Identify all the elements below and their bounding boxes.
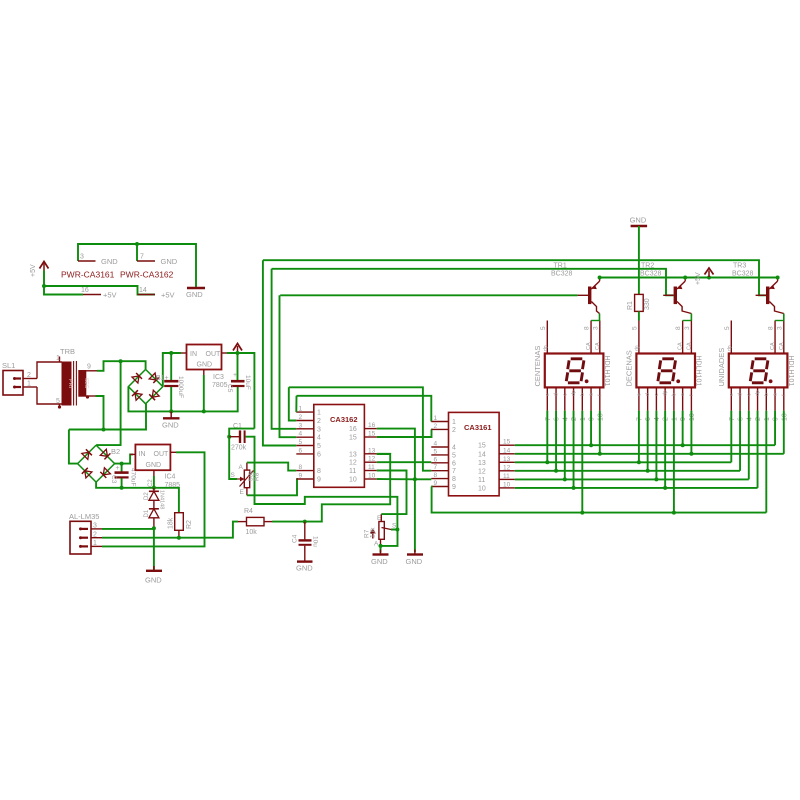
junction display DECENAS pin 5 on bus	[672, 511, 676, 515]
svg-text:1000uF: 1000uF	[177, 376, 184, 398]
svg-text:7: 7	[434, 464, 438, 471]
wire IC3 OUT to +5V rail corner	[227, 353, 254, 429]
capacitor C3 470uF plates	[115, 473, 129, 478]
pin stub GND IC3	[203, 370, 205, 376]
pin 7 stub CA3161	[431, 470, 448, 472]
pin 10 stub CA3162	[364, 478, 376, 480]
svg-text:2: 2	[434, 423, 438, 430]
svg-text:GND: GND	[186, 290, 203, 299]
wire segment bus line d from CA3161 pin 12	[515, 470, 740, 472]
svg-text:OUT: OUT	[154, 451, 170, 458]
svg-text:a: a	[773, 393, 779, 396]
svg-text:10: 10	[503, 481, 511, 488]
svg-text:a: a	[589, 393, 595, 396]
svg-text:7885: 7885	[165, 482, 181, 489]
junction minus rail at C3	[120, 486, 124, 490]
svg-text:7: 7	[545, 417, 552, 421]
wire IC4 OUT to LM35 pin1	[102, 452, 205, 546]
svg-text:CA3161: CA3161	[464, 423, 492, 432]
svg-text:CA: CA	[595, 342, 601, 350]
wire IC4 GND to minus rail	[153, 476, 155, 489]
resistor R2 body	[175, 513, 184, 531]
junction emitter rail TR3	[776, 276, 780, 280]
pin 9 stub CA3161	[431, 486, 448, 488]
trimmer R8 body	[244, 470, 249, 488]
display CENTENAS bottom pin stub 9	[590, 387, 592, 410]
junction D1 LM35 pin3	[152, 526, 156, 530]
svg-text:15: 15	[503, 439, 511, 446]
svg-text:2: 2	[755, 417, 762, 421]
pin 12 stub CA3162	[364, 461, 376, 463]
svg-text:3: 3	[80, 254, 84, 261]
svg-text:4: 4	[562, 417, 569, 421]
capacitor B1 1000uF plates	[164, 381, 178, 386]
resistor R4 body	[247, 517, 265, 525]
svg-text:9: 9	[680, 417, 687, 421]
wire display CENTENAS pin drop to bus line 6	[573, 411, 575, 488]
svg-text:12: 12	[503, 464, 511, 471]
pin 3 stub AL-LM35	[91, 528, 102, 530]
svg-text:14: 14	[503, 447, 511, 454]
svg-text:2: 2	[663, 417, 670, 421]
wire AC1 down to bridge B2 top	[96, 361, 121, 445]
wire B1- left corner down to gnd rail	[128, 386, 237, 411]
pin 2 stub CA3162	[296, 420, 314, 422]
svg-text:10k: 10k	[370, 527, 377, 538]
wire segment bus line b from CA3161 pin 14	[515, 453, 784, 455]
capacitor C1 plates	[240, 430, 245, 443]
pin stub IN IC4	[130, 453, 135, 455]
wire display DECENAS pin drop to bus line 1	[682, 411, 684, 446]
junction AC1 at x120	[119, 359, 123, 363]
power symbol +5V arrow (PWR block)	[40, 262, 49, 271]
junction display CENTENAS pin 2 on bus	[554, 469, 558, 473]
pin 9 stub CA3162	[296, 478, 314, 480]
svg-text:a: a	[680, 393, 686, 396]
wire R8 E to CA3162 pin9	[247, 479, 297, 495]
wire display UNIDADES pin drop to bus line 3	[730, 411, 732, 463]
svg-text:9: 9	[773, 417, 780, 421]
wire R7 E to CA3162 pin11	[377, 471, 407, 515]
wire CA3162 pin1 riser to bus W2	[295, 396, 297, 412]
svg-text:S: S	[392, 523, 397, 530]
display UNIDADES bottom pin stub 1	[765, 387, 767, 410]
wire LM35 pin2 to R4	[102, 522, 238, 538]
pin 1 stub AL-LM35	[91, 545, 102, 547]
svg-text:d: d	[554, 393, 560, 396]
wire R8 A to CA3162 pin8	[247, 463, 296, 471]
svg-text:+: +	[233, 372, 237, 379]
pin stub OUT IC4	[170, 451, 176, 453]
pin 11 stub CA3161	[499, 478, 515, 480]
wire CA3162 pin4 to top bus3	[280, 295, 297, 437]
wire display UNIDADES pin drop to bus line 7	[765, 411, 767, 513]
svg-text:b: b	[764, 393, 770, 396]
display UNIDADES bottom pin stub 7	[730, 387, 732, 410]
wire display CENTENAS pin drop to bus line 7	[581, 411, 583, 513]
junction gnd rail at cap B1	[169, 409, 173, 413]
svg-text:HDLH101: HDLH101	[787, 356, 794, 387]
wire CA3162 pin12 to CA3161 pin6	[377, 461, 432, 463]
wire digit bus1 CA3162 pin5 to TR3 base	[263, 260, 766, 295]
junction GND PWR block top	[135, 242, 139, 246]
svg-text:12: 12	[368, 456, 376, 463]
svg-text:1: 1	[671, 417, 678, 421]
svg-text:6: 6	[434, 456, 438, 463]
capacitor C4 plates	[299, 540, 312, 544]
connector SL1 pin 2 stub	[23, 378, 37, 380]
trimmer R7 wiper diagonal	[382, 528, 392, 530]
wire C1 right plate to pot loop	[246, 437, 398, 530]
svg-text:D1: D1	[144, 509, 150, 517]
junction emitter rail +5V arrow	[707, 276, 711, 280]
svg-text:TR1: TR1	[554, 263, 567, 270]
display CENTENAS bottom pin stub 7	[546, 387, 548, 410]
svg-text:GND: GND	[406, 557, 423, 566]
svg-text:4: 4	[434, 441, 438, 448]
svg-text:GND: GND	[197, 362, 213, 369]
svg-text:R4: R4	[244, 508, 253, 515]
svg-text:R2: R2	[186, 520, 193, 529]
svg-text:13: 13	[349, 451, 357, 458]
wire display DECENAS pin drop to bus line 4	[647, 411, 649, 471]
transformer TRB pin 1 stub	[59, 357, 61, 363]
wire GND top to R1	[638, 226, 640, 294]
transformer TRB pin 5 stub	[59, 404, 61, 407]
svg-text:1: 1	[317, 410, 321, 417]
svg-text:5: 5	[434, 448, 438, 455]
svg-text:dp: dp	[755, 390, 761, 396]
svg-text:GND: GND	[145, 576, 162, 585]
wire display UNIDADES pin drop to bus line 6	[757, 411, 759, 488]
IC CA3162 body	[314, 405, 365, 488]
svg-text:1: 1	[764, 417, 771, 421]
display DECENAS bottom pin stub 9	[682, 387, 684, 410]
wire W1 CA3162 pin2 to CA3161 pin7	[289, 387, 432, 470]
display DECENAS bottom pin stub 7	[638, 387, 640, 410]
svg-text:5: 5	[540, 326, 547, 330]
wire GND net PWR pin7 riser	[136, 244, 138, 261]
trimmer R7 adjust arrow	[372, 531, 374, 539]
transistor TR2 BC328	[663, 277, 691, 313]
svg-text:GND: GND	[296, 564, 313, 573]
svg-text:11: 11	[349, 468, 356, 475]
wire cap B1 top lead	[170, 353, 172, 380]
svg-text:9: 9	[317, 477, 321, 484]
svg-text:10uF: 10uF	[244, 375, 251, 390]
junction display DECENAS pin 3 on bus	[654, 477, 658, 481]
svg-text:SEC: SEC	[83, 378, 89, 389]
wire CA3162 pin10 gnd link	[377, 478, 432, 480]
svg-text:GND: GND	[371, 557, 388, 566]
wire segment bus line c from CA3161 pin 13	[515, 461, 732, 463]
display DECENAS bottom pin stub 2	[664, 387, 666, 410]
svg-text:CA: CA	[586, 342, 592, 350]
svg-text:IN: IN	[190, 351, 197, 358]
pin 16 stub PWR-CA3161	[83, 294, 101, 296]
display CENTENAS seven segment digit 8	[566, 359, 584, 383]
resistor R1 body	[635, 294, 644, 311]
wire AC1 secondary top to bridge B1 top	[97, 361, 146, 371]
junction display CENTENAS pin 1 on bus	[545, 460, 549, 464]
svg-text:16: 16	[81, 287, 89, 294]
svg-text:UNIDADES: UNIDADES	[717, 348, 726, 387]
svg-text:DECENAS: DECENAS	[624, 350, 633, 386]
svg-text:9: 9	[87, 364, 91, 371]
wire AC2 secondary bottom down	[96, 396, 104, 430]
svg-text:7805: 7805	[212, 382, 228, 389]
display UNIDADES bottom pin stub 9	[774, 387, 776, 410]
junction display CENTENAS pin 7 on bus	[598, 452, 602, 456]
svg-text:1: 1	[580, 417, 587, 421]
pin 6 stub CA3162	[296, 453, 314, 455]
display CENTENAS body	[545, 354, 604, 388]
wire between D2 and D1	[153, 500, 155, 509]
wire C1 left plate lead	[229, 436, 239, 438]
wire GND net PWR block top	[78, 244, 196, 288]
wire C4 bottom lead	[304, 546, 306, 562]
junction C1 left node	[227, 435, 231, 439]
wire B2 bottom corner to minus rail	[96, 482, 179, 505]
svg-text:10: 10	[781, 413, 788, 421]
wire segment bus line f from CA3161 pin 10	[515, 487, 758, 489]
pin 13 stub CA3161	[499, 461, 515, 463]
svg-text:6: 6	[299, 447, 303, 454]
svg-text:4: 4	[317, 435, 321, 442]
regulator IC3 body	[187, 345, 222, 370]
junction display DECENAS pin 2 on bus	[646, 469, 650, 473]
wire display UNIDADES pin drop to bus line 5	[748, 411, 750, 480]
pin 5 stub CA3162	[296, 445, 314, 447]
ground symbol GND right of R7	[407, 550, 423, 555]
display CENTENAS CA pin stubs top	[591, 321, 600, 354]
svg-text:+5V: +5V	[695, 272, 702, 285]
wire R8 wiper S net down	[229, 437, 237, 479]
svg-text:1: 1	[93, 540, 97, 547]
svg-text:3: 3	[93, 523, 97, 530]
display DECENAS bottom pin stub 6	[647, 387, 649, 410]
junction display DECENAS pin 6 on bus	[681, 443, 685, 447]
svg-text:2: 2	[452, 427, 456, 434]
wire +5V to C1 branch	[229, 429, 254, 437]
wire CA3162 pin2 to bus W1	[289, 387, 297, 420]
svg-text:13: 13	[368, 447, 376, 454]
svg-text:A: A	[374, 541, 379, 548]
svg-text:5: 5	[452, 452, 456, 459]
svg-text:CA3162: CA3162	[330, 415, 358, 424]
wire minus rail to R2 top	[178, 505, 180, 513]
pin stub R7 E top	[380, 514, 382, 521]
wire segment bus line e from CA3161 pin 11	[515, 478, 749, 480]
ground symbol GND below C4	[297, 560, 313, 562]
wire C4 top lead	[304, 522, 306, 540]
svg-text:1: 1	[299, 406, 303, 413]
wire display CENTENAS pin drop to bus line 1	[590, 411, 592, 446]
svg-text:TRB: TRB	[60, 347, 75, 356]
svg-text:11: 11	[478, 477, 485, 484]
wire B2 right corner to IC4 IN	[115, 454, 133, 463]
svg-text:5: 5	[631, 326, 638, 330]
svg-text:8: 8	[768, 326, 775, 330]
diode D1	[149, 508, 159, 510]
svg-text:CA: CA	[770, 342, 776, 350]
pin 7 stub PWR-CA3162	[137, 260, 155, 262]
svg-text:6: 6	[317, 451, 321, 458]
pin 6 stub CA3161	[431, 462, 448, 464]
wire R1 bottom to DECENAS dp pin	[638, 311, 640, 320]
wire display DECENAS CA pins link	[683, 320, 692, 322]
wire R7 S loop	[381, 530, 398, 546]
svg-text:2: 2	[93, 531, 97, 538]
svg-text:8: 8	[299, 464, 303, 471]
wire display CENTENAS pin drop to bus line 2	[599, 411, 601, 454]
svg-text:12: 12	[349, 460, 357, 467]
svg-text:4: 4	[746, 417, 753, 421]
IC CA3161 body	[449, 412, 500, 495]
transistor TR3 BC328	[756, 277, 784, 313]
svg-text:GND: GND	[161, 257, 178, 266]
svg-text:1N4148: 1N4148	[159, 490, 165, 509]
svg-text:14: 14	[478, 451, 486, 458]
transistor TR1 BC328	[578, 277, 600, 313]
junction AC2	[102, 428, 106, 432]
svg-text:R8: R8	[254, 472, 261, 481]
svg-text:6: 6	[554, 417, 561, 421]
svg-text:BC328: BC328	[640, 271, 662, 278]
connector SL1 body	[3, 371, 23, 396]
svg-text:OUT: OUT	[206, 351, 222, 358]
svg-text:6: 6	[645, 417, 652, 421]
pin stub R2 bottom	[178, 530, 180, 537]
pin 3 stub CA3162	[296, 428, 314, 430]
svg-text:b: b	[580, 393, 586, 396]
display UNIDADES CA pin stubs top	[775, 321, 784, 354]
svg-text:270k: 270k	[231, 445, 247, 452]
svg-text:8: 8	[584, 326, 591, 330]
regulator IC4 body	[135, 445, 170, 471]
transformer TRB pin 9 stub	[86, 370, 97, 372]
wire display UNIDADES CA pins link	[775, 320, 784, 322]
svg-text:PRI: PRI	[67, 379, 73, 389]
junction display DECENAS pin 1 on bus	[637, 460, 641, 464]
display DECENAS decimal point	[676, 379, 680, 383]
wire cap B1 bottom lead to gnd rail	[170, 387, 172, 412]
wire R4 to CA3162 pin13	[272, 454, 390, 522]
svg-text:GND: GND	[162, 421, 179, 430]
pin stub R4 right	[264, 521, 272, 523]
ground symbol GND below R7	[373, 550, 389, 555]
wire emitter +5V rail	[600, 277, 776, 279]
ground symbol GND below diodes	[146, 566, 162, 571]
svg-text:SL1: SL1	[2, 361, 15, 370]
svg-text:2: 2	[27, 372, 31, 379]
svg-text:C4: C4	[292, 534, 299, 543]
pin 16 stub CA3162	[364, 428, 376, 430]
svg-text:3: 3	[592, 326, 599, 330]
wire display CENTENAS CA pins link	[591, 320, 600, 322]
junction B1+ cap top	[169, 351, 173, 355]
svg-text:9: 9	[299, 473, 303, 480]
svg-text:S: S	[231, 472, 236, 479]
pin 5 stub CA3161	[431, 454, 448, 456]
svg-text:10: 10	[478, 485, 486, 492]
pin 8 stub CA3161	[431, 478, 448, 480]
junction minus rail at IC4 GND	[152, 486, 156, 490]
display DECENAS seven segment digit 8	[658, 359, 676, 383]
svg-text:CA: CA	[686, 342, 692, 350]
connector AL-LM35 body	[70, 521, 91, 554]
svg-text:TR2: TR2	[641, 263, 654, 270]
wire +5V net PWR block vertical	[44, 271, 83, 295]
svg-text:10: 10	[368, 473, 376, 480]
power symbol +5V arrow on emitter rail	[705, 268, 714, 277]
svg-text:7: 7	[140, 254, 144, 261]
svg-text:2: 2	[299, 414, 303, 421]
transformer TRB secondary coil	[79, 371, 86, 397]
display UNIDADES bottom pin stub 2	[757, 387, 759, 410]
svg-text:2: 2	[571, 417, 578, 421]
wire display UNIDADES pin drop to bus line 2	[783, 411, 785, 454]
svg-text:3: 3	[684, 326, 691, 330]
svg-text:PWR-CA3161: PWR-CA3161	[61, 270, 115, 280]
junction R4 net at C4	[303, 520, 307, 524]
svg-text:HDLH101: HDLH101	[694, 356, 701, 387]
svg-text:9: 9	[434, 480, 438, 487]
pin stub R8 A top	[246, 463, 248, 471]
display UNIDADES bottom pin stub 10	[783, 387, 785, 410]
svg-text:d: d	[738, 393, 744, 396]
diode D2	[149, 490, 159, 492]
junction emitter rail TR2	[683, 276, 687, 280]
svg-text:e: e	[545, 393, 551, 396]
pin 1 stub CA3162	[296, 411, 314, 413]
svg-text:IC4: IC4	[165, 474, 176, 481]
pin 2 stub AL-LM35	[91, 537, 102, 539]
svg-text:10: 10	[597, 413, 604, 421]
wire CA3162 pin15 to CA3161 pin2	[377, 429, 432, 437]
wire TR3 collector to display anode	[783, 314, 785, 321]
wire AC2 horizontal to B1 bottom	[69, 404, 146, 430]
pin 4 stub CA3161	[431, 446, 448, 448]
svg-text:15: 15	[478, 443, 486, 450]
svg-text:10k: 10k	[246, 529, 258, 536]
svg-text:dp: dp	[663, 390, 669, 396]
svg-text:7: 7	[636, 417, 643, 421]
pin 10 stub CA3161	[499, 487, 515, 489]
svg-text:CENTENAS: CENTENAS	[533, 346, 542, 387]
svg-text:AL-LM35: AL-LM35	[69, 512, 99, 521]
svg-text:+5V: +5V	[161, 291, 175, 300]
display DECENAS bottom pin stub 1	[673, 387, 675, 410]
wire D1 junction to GND symbol	[153, 528, 155, 569]
pin 12 stub CA3161	[499, 470, 515, 472]
svg-text:9: 9	[452, 484, 456, 491]
svg-text:E: E	[240, 489, 245, 496]
svg-text:330: 330	[644, 298, 651, 310]
wire display CENTENAS pin drop to bus line 4	[555, 411, 557, 471]
transformer TRB primary coil	[62, 362, 71, 405]
wire W2 CA3162 pin1 to CA3161 pin1	[297, 396, 432, 422]
display UNIDADES bottom pin stub 6	[739, 387, 741, 410]
svg-text:IN: IN	[139, 451, 146, 458]
svg-text:B1+: B1+	[156, 375, 169, 382]
svg-text:+5V: +5V	[103, 291, 117, 300]
svg-text:15: 15	[349, 435, 357, 442]
svg-text:6: 6	[738, 417, 745, 421]
wire +5V net PWR block to pin14	[44, 286, 155, 295]
svg-text:dp: dp	[634, 345, 640, 351]
wire CA3162 pin16 to gnd net	[377, 429, 415, 480]
